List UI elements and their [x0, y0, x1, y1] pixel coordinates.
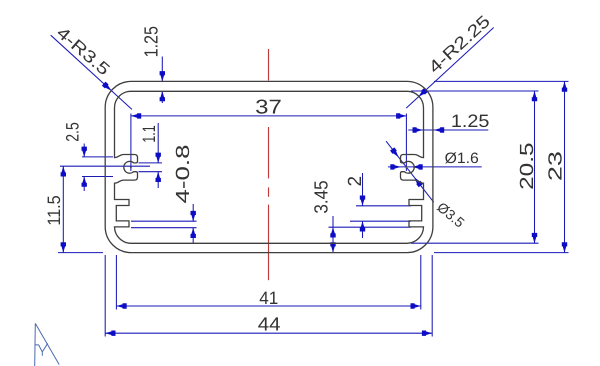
- svg-text:1.25: 1.25: [451, 111, 490, 131]
- center mark right boss: [406, 167, 408, 169]
- dimension 11.5 left: [44, 166, 150, 252]
- dimension 1.25 right wall: [408, 111, 489, 133]
- svg-text:2: 2: [345, 176, 366, 187]
- svg-text:37: 37: [255, 97, 282, 119]
- svg-text:41: 41: [259, 288, 278, 308]
- dimension 41: [116, 255, 420, 310]
- svg-text:3.45: 3.45: [311, 180, 332, 213]
- dimension 2.5 left: [62, 122, 113, 191]
- dimension 1.1: [139, 123, 163, 188]
- outer profile: [105, 81, 433, 252]
- logo A bottom-left: [35, 323, 60, 366]
- dimension 37: [131, 97, 407, 171]
- svg-text:23: 23: [546, 151, 567, 181]
- svg-text:2.5: 2.5: [62, 122, 82, 142]
- leader 4-R3.5: [51, 23, 132, 109]
- leader diameter 1.6: [388, 150, 482, 170]
- leader diameter 3.5: [386, 141, 468, 230]
- dimension 3.45: [311, 180, 411, 252]
- svg-text:1.1: 1.1: [139, 125, 159, 143]
- dimension 4-0.8: [131, 145, 197, 243]
- inner profile with bosses and tabs: [115, 91, 424, 243]
- dimension 23: [434, 81, 569, 252]
- dimension 2: [345, 173, 411, 238]
- svg-text:20.5: 20.5: [517, 143, 538, 190]
- svg-text:44: 44: [258, 314, 281, 335]
- svg-text:4-0.8: 4-0.8: [173, 145, 194, 204]
- svg-text:1.25: 1.25: [142, 26, 163, 57]
- svg-text:11.5: 11.5: [44, 195, 64, 225]
- dimension 44: [105, 255, 432, 337]
- leader 4-R2.25: [406, 12, 494, 108]
- centerline vertical (red): [268, 49, 270, 280]
- center mark left boss: [130, 167, 132, 169]
- svg-text:Ø1.6: Ø1.6: [445, 150, 479, 167]
- dimension 1.25 top wall: [142, 26, 166, 103]
- dimension 20.5: [411, 91, 539, 243]
